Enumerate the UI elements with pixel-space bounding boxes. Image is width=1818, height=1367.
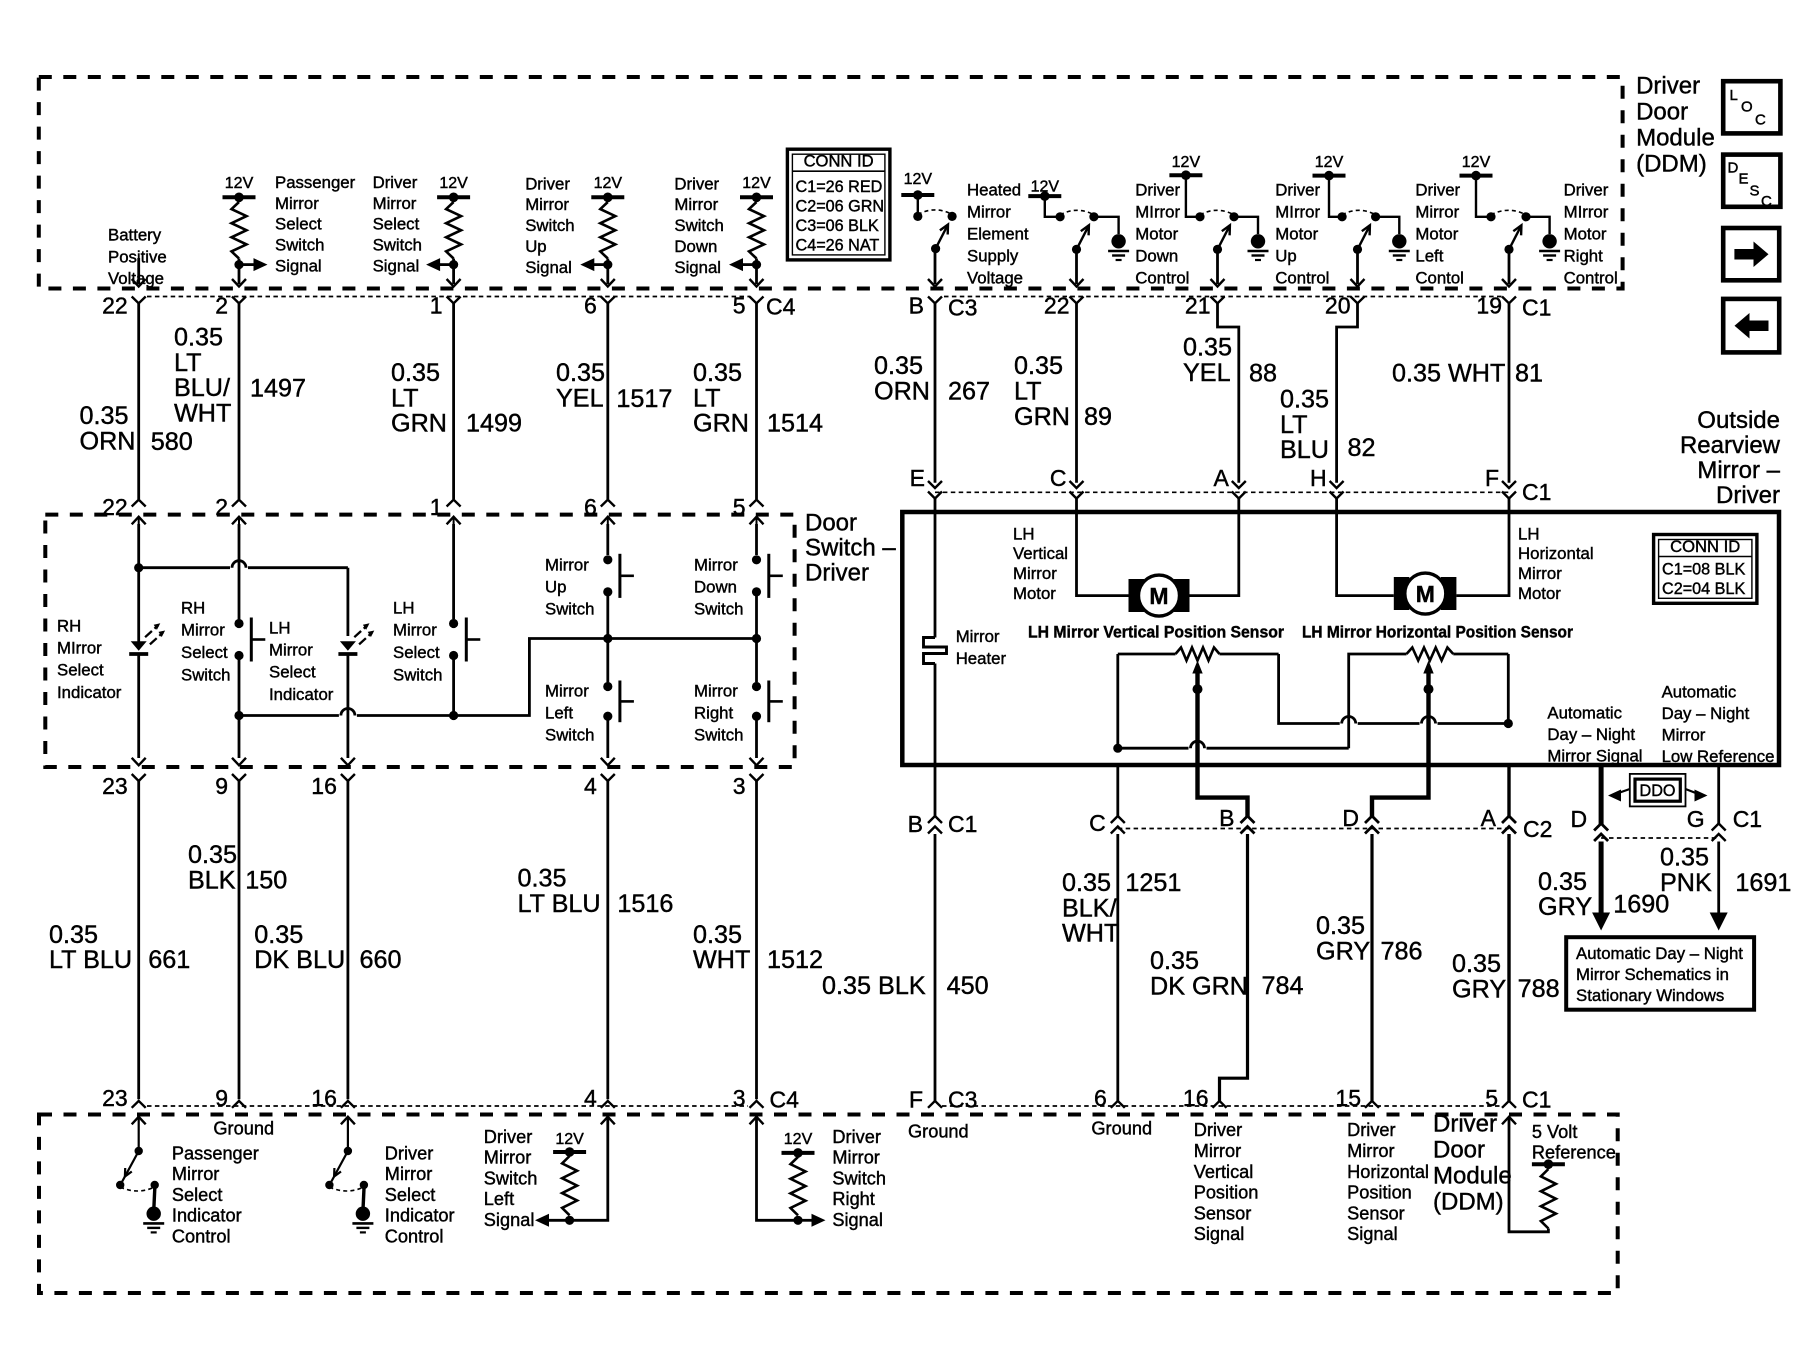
svg-text:0.35: 0.35 [693,921,742,949]
svg-text:C2=04 BLK: C2=04 BLK [1662,580,1745,598]
Driver Door Module (DDM) top dashed box [39,77,1623,289]
svg-text:12V: 12V [742,175,771,192]
svg-text:Select: Select [269,663,316,682]
svg-text:Control: Control [172,1227,231,1247]
svg-text:BLK/: BLK/ [1062,894,1117,922]
svg-text:20: 20 [1325,293,1351,319]
wire 1497 (LT BLU/WHT) pin2 [238,303,241,499]
svg-text:Driver: Driver [385,1143,434,1163]
connector C4 pin 6 (top) [601,297,615,304]
connector C1 pin G (day-night) [1712,824,1726,831]
svg-text:0.35: 0.35 [254,921,303,949]
connector C3-C1 dashed face line (top right) [944,296,1502,298]
svg-text:B: B [908,811,923,837]
svg-text:H: H [1310,465,1327,491]
svg-text:267: 267 [948,378,990,406]
wire 786 (GRY) horizontal sensor signal D to pin15 [1372,765,1429,817]
wire 1517 (YEL) pin6 [606,303,609,499]
svg-text:Mirror: Mirror [525,195,569,214]
door switch pin 2 (top) [232,500,246,507]
wire C to LH vertical mirror motor [1077,499,1129,596]
svg-text:MIrror: MIrror [1275,202,1320,221]
svg-text:Mirror: Mirror [956,627,1000,646]
connector C2 pin C [1111,816,1125,823]
svg-text:C1: C1 [1522,295,1551,321]
svg-text:16: 16 [1183,1085,1209,1111]
switch - driver mirror motor down control (pin 22) [1028,194,1061,198]
svg-text:Select: Select [57,661,104,680]
LOC nav box [1723,81,1780,133]
svg-text:A: A [1481,805,1497,831]
svg-text:Switch: Switch [694,599,743,618]
svg-text:1514: 1514 [767,410,823,438]
svg-text:0.35: 0.35 [174,323,223,351]
switch - driver mirror select indicator control (pin 16) [341,1117,355,1125]
svg-text:Driver: Driver [1194,1120,1243,1140]
resistor - driver mirror switch up signal (pin 6) [591,195,624,199]
svg-text:F: F [1485,465,1499,491]
svg-text:C2=06 GRN: C2=06 GRN [796,197,885,215]
svg-text:CONN ID: CONN ID [804,152,874,171]
connector C4 pin 22 (top) [132,297,146,304]
svg-text:12V: 12V [1462,154,1491,171]
connector C1 pin C (mirror) [1070,481,1084,488]
svg-text:Module: Module [1636,125,1715,152]
svg-text:LH: LH [1013,524,1034,543]
connector C1 pin 20 (top) [1351,297,1365,304]
resistor - driver mirror select switch signal (pin 1) [437,195,470,199]
svg-text:660: 660 [360,946,402,974]
switch - driver mirror motor up control (pin 21) [1169,173,1202,177]
svg-text:Left: Left [1415,246,1443,265]
svg-text:Signal: Signal [674,258,721,277]
svg-text:Stationary Windows: Stationary Windows [1576,986,1724,1005]
svg-text:15: 15 [1335,1085,1361,1111]
svg-text:150: 150 [245,867,287,895]
svg-text:Vertical: Vertical [1013,544,1068,563]
low reference bus inside mirror [1113,744,1122,753]
svg-text:LH Mirror Vertical Position Se: LH Mirror Vertical Position Sensor [1028,623,1285,641]
svg-text:DK GRN: DK GRN [1150,972,1248,1000]
svg-text:Select: Select [385,1185,436,1205]
svg-text:Select: Select [172,1185,223,1205]
svg-text:0.35: 0.35 [80,402,129,430]
svg-text:YEL: YEL [556,384,604,412]
svg-text:LT BLU: LT BLU [518,890,601,918]
svg-text:D: D [1342,805,1359,831]
svg-text:Position: Position [1194,1183,1259,1203]
svg-text:Driver: Driver [484,1127,533,1147]
door switch pin 23 (bottom) [132,758,146,766]
svg-text:RH: RH [181,598,205,617]
svg-text:Driver: Driver [373,173,418,192]
connector pin 5 (bottom row) [1502,1101,1516,1108]
switch - mirror up [606,524,609,555]
wire F to LH horizontal mirror motor [1456,499,1509,596]
resistor - 5 volt reference (pin 5) [1502,1117,1516,1125]
svg-text:0.35: 0.35 [1014,352,1063,380]
switch - LH mirror select [452,524,455,619]
svg-text:Driver: Driver [1564,180,1609,199]
svg-text:MIrror: MIrror [1564,202,1609,221]
svg-text:Outside: Outside [1697,407,1780,434]
svg-text:GRN: GRN [1014,403,1070,431]
svg-text:Left: Left [545,703,573,722]
Driver Door Module (DDM) bottom dashed box [39,1115,1618,1294]
svg-text:Indicator: Indicator [269,685,334,704]
svg-text:Mirror: Mirror [674,195,718,214]
wire H to LH horizontal mirror motor [1337,499,1394,596]
svg-text:Motor: Motor [1518,584,1561,603]
svg-text:12V: 12V [904,171,933,188]
connector C1 pin A (mirror) [1232,481,1246,488]
svg-text:Vertical: Vertical [1194,1162,1254,1182]
svg-text:Switch: Switch [525,216,574,235]
svg-text:0.35: 0.35 [1183,334,1232,362]
connector C1 pin E (mirror) [928,481,942,488]
svg-text:Select: Select [373,215,420,234]
svg-text:Ground: Ground [213,1119,274,1139]
svg-text:Door: Door [1433,1137,1485,1164]
svg-text:5: 5 [1485,1085,1498,1111]
svg-text:Motor: Motor [1275,224,1318,243]
svg-text:F: F [909,1087,923,1113]
resistor - driver mirror switch left signal (pin 4) [553,1150,586,1154]
svg-text:0.35: 0.35 [391,359,440,387]
svg-text:784: 784 [1262,972,1304,1000]
svg-text:Sensor: Sensor [1347,1203,1405,1223]
svg-text:Mirror –: Mirror – [1697,457,1780,484]
wire 1514 (LT GRN) pin5 [755,303,758,499]
svg-text:G: G [1687,806,1705,832]
connector C4 pin 1 (top) [447,297,461,304]
automatic day-night mirror schematics note box [1566,937,1754,1010]
connector C4 pin 5 (top) [750,297,764,304]
svg-text:Mirror: Mirror [1194,1141,1241,1161]
vertical position sensor wiper [1192,661,1202,674]
svg-text:Day – Night: Day – Night [1547,725,1635,744]
svg-text:3: 3 [733,1085,746,1111]
svg-text:ORN: ORN [874,377,930,405]
svg-text:Element: Element [967,224,1029,243]
svg-text:Battery: Battery [108,226,162,245]
wire 267 (ORN) heated mirror B-C3 to E-C1 [934,303,937,483]
svg-text:Door: Door [805,510,857,537]
svg-text:Mirror: Mirror [181,621,225,640]
svg-text:Driver: Driver [1636,73,1700,100]
svg-text:Indicator: Indicator [385,1206,455,1226]
svg-text:Driver: Driver [525,174,570,193]
svg-text:C3: C3 [948,1087,977,1113]
svg-text:0.35: 0.35 [1316,912,1365,940]
svg-text:12V: 12V [1172,154,1201,171]
connector pin 3 (bottom row) [750,1101,764,1108]
svg-text:BLU/: BLU/ [174,374,230,402]
svg-text:Right: Right [1564,246,1604,265]
svg-text:1691: 1691 [1735,869,1791,897]
wire 1512 (WHT) pin3 [755,781,758,1099]
svg-text:C1: C1 [1733,806,1762,832]
wire 660 (DK BLU) pin16 [346,781,349,1099]
svg-text:C: C [1050,465,1067,491]
svg-text:22: 22 [1044,293,1070,319]
svg-text:Signal: Signal [1194,1224,1245,1244]
svg-text:Ground: Ground [908,1122,969,1142]
svg-text:0.35 BLK: 0.35 BLK [822,972,926,1000]
svg-text:C1=26 RED: C1=26 RED [796,178,883,196]
connector C3 pin F (bottom) [928,1101,942,1108]
svg-text:WHT: WHT [174,400,231,428]
svg-text:C1: C1 [948,811,977,837]
mirror heater element [924,638,947,664]
svg-text:B: B [1219,805,1234,831]
svg-text:9: 9 [215,773,228,799]
svg-text:2: 2 [215,293,228,319]
svg-text:3: 3 [733,773,746,799]
svg-text:LT BLU: LT BLU [49,946,132,974]
svg-text:88: 88 [1249,359,1277,387]
svg-text:Contol: Contol [1415,268,1464,287]
connector C2 pin B [1241,816,1255,823]
svg-text:Mirror: Mirror [172,1164,219,1184]
svg-text:Reference: Reference [1532,1143,1616,1163]
svg-text:Mirror: Mirror [967,202,1011,221]
horizontal position sensor wiper [1423,661,1433,674]
Door Switch - Driver dashed box [45,515,794,767]
svg-text:Driver: Driver [832,1127,881,1147]
svg-text:0.35: 0.35 [1538,868,1587,896]
svg-text:O: O [1741,99,1753,116]
svg-text:Heater: Heater [956,649,1007,668]
svg-text:Driver: Driver [1415,180,1460,199]
svg-text:C4: C4 [766,294,796,320]
svg-text:Horizontal: Horizontal [1347,1162,1429,1182]
svg-text:M: M [1149,583,1168,609]
svg-text:Mirror: Mirror [484,1148,531,1168]
svg-text:1517: 1517 [616,385,672,413]
svg-text:Indicator: Indicator [172,1206,242,1226]
motor M2 - LH horizontal mirror motor [1394,577,1410,610]
svg-text:RH: RH [57,616,81,635]
svg-text:D: D [1570,806,1587,832]
svg-text:LT: LT [1280,411,1308,439]
wire 784 (DK GRN) vertical sensor signal B to pin16 [1198,765,1248,817]
svg-text:Motor: Motor [1415,224,1458,243]
svg-text:GRN: GRN [391,410,447,438]
svg-text:C: C [1755,112,1766,129]
svg-text:Switch: Switch [832,1168,886,1188]
door switch pin 9 (bottom) [232,758,246,766]
svg-text:1: 1 [430,494,443,520]
svg-text:16: 16 [311,1085,337,1111]
svg-text:Day – Night: Day – Night [1662,704,1750,723]
svg-text:1: 1 [430,293,443,319]
svg-text:22: 22 [102,293,128,319]
connector pin 4 (bottom row) [601,1101,615,1108]
wire 89 (LT GRN) pin22 to C [1075,303,1078,483]
svg-text:Mirror: Mirror [393,621,437,640]
svg-text:LT: LT [693,384,721,412]
wire 150 (BLK) pin9 [238,781,241,1099]
wire - lower select bus [234,711,243,720]
svg-text:Select: Select [275,215,322,234]
connector C4 dashed face line (top) [147,296,750,298]
svg-text:0.35: 0.35 [1280,385,1329,413]
svg-text:YEL: YEL [1183,359,1231,387]
svg-text:Select: Select [181,643,228,662]
connector pin 6 (bottom row) [1111,1101,1125,1108]
svg-text:Mirror: Mirror [373,194,417,213]
svg-text:C1=08 BLK: C1=08 BLK [1662,560,1745,578]
svg-text:C4: C4 [770,1087,800,1113]
wire 661 (LT BLU) pin23 [137,781,140,1099]
resistor - driver mirror switch down signal (pin 5) [740,195,773,199]
resistor - passenger mirror select switch signal (pin 2) [223,195,256,199]
wire 1251 (BLK/WHT) vertical sensor low ref C to pin6 [1116,765,1119,817]
connector C1 pin F (mirror) [1502,481,1516,488]
CONN ID table (door switch connectors) [787,149,890,260]
svg-text:Mirror: Mirror [694,681,738,700]
door switch pin 1 (top) [447,500,461,507]
svg-text:Signal: Signal [484,1210,535,1230]
svg-text:Mirror: Mirror [1415,202,1459,221]
wire E to mirror heater [934,499,937,638]
wire 1499 (LT GRN) pin1 [452,303,455,499]
svg-text:Supply: Supply [967,246,1019,265]
motor M1 - LH vertical mirror motor [1129,579,1145,612]
svg-text:1512: 1512 [767,946,823,974]
svg-text:LH: LH [393,598,414,617]
connector C3 pin B (top) [928,297,942,304]
resistor - driver mirror switch right signal (pin 3) [782,1151,815,1155]
svg-text:Control: Control [1564,268,1618,287]
svg-text:Sensor: Sensor [1194,1203,1252,1223]
svg-text:22: 22 [102,494,128,520]
vertical sensor right terminal drop and tie line [1279,654,1340,724]
svg-text:788: 788 [1518,975,1560,1003]
svg-text:GRY: GRY [1538,893,1592,921]
svg-text:Mirror: Mirror [545,555,589,574]
svg-text:12V: 12V [225,175,254,192]
svg-text:1497: 1497 [250,374,306,402]
svg-text:Select: Select [393,643,440,662]
door switch pin 3 (bottom) [750,758,764,766]
wire 1516 (LT BLU) pin4 [606,781,609,1099]
svg-text:Switch: Switch [674,216,723,235]
svg-text:GRN: GRN [693,410,749,438]
svg-text:LT: LT [174,349,202,377]
switch - mirror left [603,682,612,691]
svg-text:12V: 12V [1315,154,1344,171]
svg-text:Signal: Signal [1347,1224,1398,1244]
svg-text:PNK: PNK [1660,869,1712,897]
svg-text:6: 6 [1094,1085,1107,1111]
svg-text:Voltage: Voltage [967,268,1023,287]
connector C1 pin 21 (top) [1211,297,1225,304]
door switch pin 16 (bottom) [341,758,355,766]
svg-text:Driver: Driver [1347,1120,1396,1140]
svg-text:LT: LT [1014,377,1042,405]
connector C1 dashed face line (day-night mirror) [1601,837,1719,839]
svg-text:Control: Control [385,1227,444,1247]
svg-text:C3=06 BLK: C3=06 BLK [796,217,879,235]
svg-text:Driver: Driver [1275,180,1320,199]
svg-text:0.35: 0.35 [556,359,605,387]
svg-text:0.35: 0.35 [693,359,742,387]
svg-text:Switch: Switch [545,725,594,744]
svg-text:WHT: WHT [693,946,750,974]
connector C1 pin B (heater return) [928,816,942,823]
door switch pin 5 (top) [750,500,764,507]
svg-text:Switch: Switch [694,725,743,744]
connector C1 pin H (mirror) [1330,481,1344,488]
switch - driver mirror motor right control (pin 19) [1460,174,1493,178]
svg-text:Mirror Schematics in: Mirror Schematics in [1576,965,1729,984]
svg-text:M: M [1416,581,1435,607]
svg-text:C1: C1 [1522,1087,1551,1113]
svg-text:Left: Left [484,1189,514,1209]
svg-text:Control: Control [1275,268,1329,287]
svg-text:BLU: BLU [1280,436,1329,464]
svg-text:D: D [1728,160,1739,177]
LED - LH mirror select indicator [340,641,356,651]
svg-text:Motor: Motor [1013,584,1056,603]
svg-text:4: 4 [584,773,597,799]
svg-text:Position: Position [1347,1183,1412,1203]
switch - passenger mirror select indicator control (pin 23) [132,1117,146,1125]
svg-text:1516: 1516 [617,890,673,918]
svg-text:C: C [1761,193,1772,210]
door switch pin 22 (top) [132,500,146,507]
previous page arrow box [1723,299,1779,353]
connector C1 pin D (day-night) [1594,824,1608,831]
svg-text:ORN: ORN [80,428,136,456]
svg-text:0.35: 0.35 [874,352,923,380]
connector pin 23 (bottom row) [132,1101,146,1108]
wire - select bus (upper) [134,563,143,572]
wire 1690 (GRY) day-night mirror signal D [1599,765,1604,825]
svg-text:(DDM): (DDM) [1636,151,1707,178]
DDO callout box [1630,774,1686,807]
svg-text:0.35: 0.35 [518,865,567,893]
svg-text:Signal: Signal [525,258,572,277]
svg-text:Mirror: Mirror [694,555,738,574]
svg-text:Switch: Switch [373,236,422,255]
connector C1 dashed face line (mirror top) [935,491,1509,493]
door switch pin 4 (bottom) [601,758,615,766]
svg-text:S: S [1750,183,1760,200]
svg-text:Right: Right [694,703,734,722]
svg-text:Motor: Motor [1135,224,1178,243]
svg-text:Down: Down [1135,246,1178,265]
svg-text:5 Volt: 5 Volt [1532,1122,1578,1142]
svg-text:LH: LH [1518,524,1539,543]
svg-text:82: 82 [1348,434,1376,462]
svg-text:5: 5 [733,494,746,520]
potentiometer - LH mirror vertical position sensor [1118,653,1176,656]
LED - RH mirror select indicator [137,524,140,643]
svg-text:Mirror: Mirror [275,194,319,213]
svg-text:Right: Right [832,1189,874,1209]
door switch pin 6 (top) [601,500,615,507]
svg-text:580: 580 [151,428,193,456]
svg-text:Signal: Signal [373,257,420,276]
switch - RH mirror select [238,524,241,619]
svg-text:C1: C1 [1522,479,1551,505]
connector C2 pin D [1365,816,1379,823]
svg-text:Low Reference: Low Reference [1662,747,1775,766]
svg-text:12V: 12V [784,1131,813,1148]
